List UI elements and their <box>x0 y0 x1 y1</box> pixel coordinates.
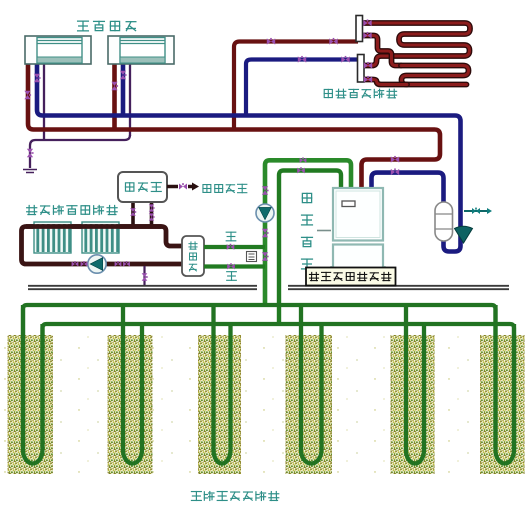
valve navy supply a <box>298 56 306 63</box>
manifold upper <box>356 16 363 42</box>
borehole 3 casing speckle <box>198 335 241 474</box>
wire green stub lower to exchanger <box>204 264 265 268</box>
wire tank stub left <box>131 201 135 226</box>
wire maroon riser to floor-heating manifold <box>234 42 358 130</box>
wire lower coil return elbow <box>362 80 407 85</box>
valve tank stub right b <box>149 213 155 220</box>
borehole 6 U-tube <box>496 305 515 463</box>
valve green riser c <box>262 252 269 260</box>
wire vent stub <box>464 210 487 212</box>
wire green outer: top to heat pump and left riser <box>265 160 351 305</box>
valve condensate drain <box>27 149 34 157</box>
wire maroon drop fan-coil-2 <box>112 64 117 130</box>
plate heat exchanger box <box>182 236 204 276</box>
valve solar drain <box>142 273 148 281</box>
valve green inner top <box>297 167 305 173</box>
wire navy riser to floor-heating manifold <box>246 60 360 116</box>
heat pump unit legs <box>332 266 385 286</box>
ground surface line <box>28 286 509 289</box>
valve green riser a <box>262 186 269 194</box>
wire green stub upper to exchanger <box>204 245 265 249</box>
wire navy tank-top to heat pump <box>372 173 444 203</box>
valve green stub upper <box>227 244 235 250</box>
floor heating coil upper <box>362 23 470 66</box>
node condensate outlet <box>23 170 37 173</box>
label plate heat exchanger <box>189 242 197 249</box>
valve solar a <box>72 261 79 266</box>
borehole 3 U-tube <box>214 305 231 463</box>
manifold lower <box>358 55 365 83</box>
label click to view source <box>309 272 318 280</box>
borehole 4 U-tube <box>301 305 322 463</box>
valve manifold stub 2 <box>363 32 371 39</box>
wire navy main: fan-coil-1 drop, header, right drop through pump <box>37 64 461 252</box>
valve manifold stub 3 <box>364 62 372 69</box>
node outlet arrow <box>192 183 199 191</box>
label floor heating system <box>324 89 332 97</box>
valve tank outlet <box>179 183 187 189</box>
heat pump unit body <box>333 188 383 268</box>
valve fan-coil-2 maroon <box>111 82 118 90</box>
solar collector panel 1 <box>34 222 71 253</box>
expansion tank <box>435 202 453 241</box>
wire condensate drop fan-coil-2 <box>129 64 131 136</box>
borehole 4 casing speckle <box>286 335 333 474</box>
label winter lower <box>227 272 237 281</box>
label fan coil units <box>78 21 89 31</box>
borehole 2 U-tube <box>123 305 142 463</box>
valve navy supply b <box>341 56 349 63</box>
valve tank stub left <box>130 208 136 216</box>
valve fan-coil-2 navy <box>120 71 127 79</box>
solar collector panel 2 <box>82 222 119 253</box>
label to water use <box>203 185 211 193</box>
wire solar top header over panels <box>26 224 162 229</box>
valve solar c <box>115 261 122 266</box>
valve tank stub right a <box>149 204 155 211</box>
label winter upper <box>226 232 236 241</box>
fan coil unit 2 <box>108 36 174 64</box>
borehole 5 casing speckle <box>391 335 435 474</box>
wire tank stub right <box>150 201 154 226</box>
wire navy drop fan-coil-2 <box>121 64 126 116</box>
heat pump display slot <box>342 201 355 207</box>
node label dash <box>317 230 331 232</box>
borehole 6 casing speckle <box>480 335 525 474</box>
valve navy right <box>391 168 399 175</box>
wire maroon main: fan-coil-1 drop, header, right riser to heat pump <box>28 64 440 188</box>
wire solar drain drop <box>143 266 145 286</box>
label vertical borehole system <box>191 492 201 501</box>
valve green stub lower <box>227 263 235 269</box>
valve fan-coil-1 maroon <box>24 91 31 99</box>
wire condensate header <box>30 135 130 168</box>
ground field scattered dots <box>4 336 524 475</box>
wire tank outlet <box>167 185 192 189</box>
valve green riser b <box>262 229 269 237</box>
borehole 2 casing speckle <box>108 335 153 474</box>
valve maroon supply b <box>329 38 337 45</box>
wire green header 2 with end legs <box>43 324 515 448</box>
wire green inner: top to heat pump and riser to header2 <box>279 171 341 325</box>
info box <box>306 268 396 286</box>
valve manifold stub 1 <box>363 19 371 26</box>
valve solar b <box>81 261 88 266</box>
node flow direction box <box>247 252 257 262</box>
hot water tank <box>118 172 167 202</box>
pump green riser <box>256 204 274 222</box>
wire green header 1 with end legs <box>23 305 496 448</box>
valve vent teal <box>472 208 480 214</box>
valve solar d <box>123 261 130 266</box>
pump right navy <box>455 226 473 243</box>
valve green outer top <box>300 157 307 162</box>
floor heating coil lower <box>401 66 469 85</box>
valve manifold stub 4 <box>364 76 372 83</box>
borehole 1 casing speckle <box>8 335 54 474</box>
borehole 1 U-tube <box>23 305 43 463</box>
wire solar loop <box>22 227 184 265</box>
pump solar <box>88 255 106 273</box>
valve fan-coil-1 navy <box>34 74 41 82</box>
wire condensate drop fan-coil-1 <box>43 64 45 140</box>
borehole 5 U-tube <box>406 305 424 463</box>
label heat pump unit <box>302 193 311 202</box>
label hot water tank <box>125 183 133 191</box>
label solar collector system <box>27 205 37 214</box>
wire manifold zigzag connector <box>362 36 401 66</box>
valve maroon right <box>391 156 399 163</box>
node vent arrow <box>487 208 492 214</box>
valve maroon supply a <box>267 38 275 45</box>
fan coil unit 1 <box>25 36 91 64</box>
